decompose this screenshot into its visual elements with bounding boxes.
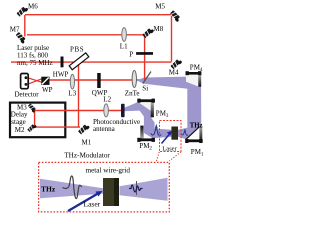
wire: red beam WP to detector lower xyxy=(27,78,44,84)
wire: red beam M8 down through P to Si xyxy=(144,36,146,81)
svg-text:antenna: antenna xyxy=(93,125,116,133)
Wollaston prism WP xyxy=(41,77,49,85)
mirror M1 xyxy=(78,123,90,135)
balanced detector xyxy=(21,74,29,89)
wire: red beam M1 to M2 delay stage xyxy=(33,126,80,128)
svg-text:M2: M2 xyxy=(15,126,25,134)
photoconductive antenna xyxy=(121,104,125,118)
mirror M6 xyxy=(16,5,28,17)
parabolic mirror PM1 xyxy=(186,127,200,140)
svg-text:THz: THz xyxy=(190,122,203,129)
svg-text:M6: M6 xyxy=(28,3,38,11)
laser arrow into modulator xyxy=(162,134,171,144)
THz beam: L-shaped band PM1 up to PM4 and left to Si xyxy=(137,76,201,138)
svg-text:M4: M4 xyxy=(169,69,179,77)
dashed callout box around modulator xyxy=(160,121,182,152)
svg-text:THz: THz xyxy=(41,185,56,194)
dotted inset box xyxy=(39,162,170,212)
svg-text:M7: M7 xyxy=(10,26,20,34)
wire: red beam Si to WP through ZnTe QWP L3 xyxy=(48,79,146,81)
wire: red beam laser input through HWP PBS to M4 xyxy=(11,61,172,63)
lens L2 xyxy=(104,104,109,117)
mirror M7 xyxy=(15,32,27,44)
wire: red beam WP to detector upper xyxy=(27,78,44,83)
parabolic mirror PM3 xyxy=(138,102,150,111)
inset: THz beam right diverging xyxy=(120,178,168,201)
svg-text:THz-Modulator: THz-Modulator xyxy=(64,152,110,160)
wire: red beam M6 down to M7 xyxy=(24,15,26,37)
svg-text:M8: M8 xyxy=(154,25,164,33)
svg-text:P: P xyxy=(129,50,133,58)
wire: red beam M7 to M8 through L1 xyxy=(27,34,145,36)
inset: THz beam left converging xyxy=(40,179,103,199)
wire: red beam M5 down to M4 xyxy=(171,16,173,62)
white notch in PM2 lower-left interior xyxy=(144,133,153,138)
svg-text:Laser: Laser xyxy=(84,200,101,209)
svg-text:M1: M1 xyxy=(82,139,92,147)
half-wave plate HWP xyxy=(61,57,64,68)
lens L3 xyxy=(70,74,74,89)
mirror M3 xyxy=(27,103,37,113)
THz pulse waveform near PM1 xyxy=(181,131,188,136)
parabolic mirror PM4 xyxy=(186,74,198,86)
svg-text:L1: L1 xyxy=(120,43,128,51)
ZnTe crystal xyxy=(132,71,136,88)
svg-text:QWP: QWP xyxy=(92,89,108,97)
THz beam: PM2 to modulator wedge xyxy=(153,129,171,139)
svg-text:ZnTe: ZnTe xyxy=(125,89,140,97)
wire: red beam M3 to antenna through L2 xyxy=(33,110,122,112)
svg-text:metal wire-grid: metal wire-grid xyxy=(86,166,131,174)
svg-text:WP: WP xyxy=(42,86,53,94)
svg-text:Si: Si xyxy=(142,84,148,92)
mirror M4 xyxy=(170,58,182,70)
lens L1 xyxy=(122,28,127,42)
wire: red beam M3 to M2 inside delay stage xyxy=(34,110,36,128)
wire: red beam PBS down to M1 xyxy=(78,64,80,128)
THz beam: modulator to PM1 wedge xyxy=(178,128,189,141)
svg-text:M5: M5 xyxy=(155,3,165,11)
mirror M5 xyxy=(169,10,181,22)
THz modulator chip xyxy=(171,127,178,140)
callout connector left xyxy=(156,152,159,163)
THz beam: antenna cone through PM3 down into PM2 xyxy=(125,102,155,138)
quarter-wave plate QWP xyxy=(97,73,101,88)
inset: laser arrow xyxy=(68,194,98,212)
mirror M8 xyxy=(142,27,154,39)
delay stage box xyxy=(10,103,65,138)
THz pulse waveform near PM2 xyxy=(151,127,161,136)
wire: red beam M6 to M5 xyxy=(25,14,172,16)
svg-text:PBS: PBS xyxy=(70,45,84,53)
svg-text:nm, 75 MHz: nm, 75 MHz xyxy=(17,59,53,67)
parabolic mirror PM2 xyxy=(140,126,143,140)
inset: output pulse waveform xyxy=(136,181,138,195)
silicon wafer Si xyxy=(143,72,151,84)
svg-text:L3: L3 xyxy=(68,90,76,98)
svg-text:stage: stage xyxy=(11,118,25,126)
callout connector right xyxy=(169,152,181,161)
polarizer P xyxy=(136,52,153,55)
svg-text:HWP: HWP xyxy=(53,70,69,78)
inset: input pulse waveform xyxy=(63,176,82,199)
inset: modulator chip xyxy=(103,178,119,206)
svg-text:Detector: Detector xyxy=(15,90,40,98)
polarizing beamsplitter PBS xyxy=(69,53,89,70)
mirror M2 xyxy=(27,123,37,133)
